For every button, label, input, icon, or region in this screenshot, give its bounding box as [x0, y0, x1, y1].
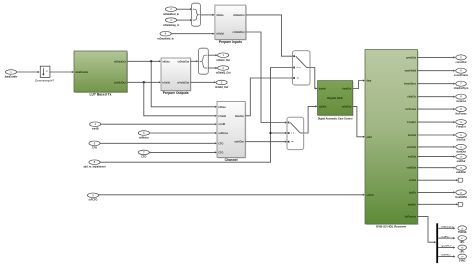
- terminator T11: [458, 178, 463, 182]
- inport CFO: [89, 141, 100, 150]
- svg-text:fecFrame: fecFrame: [455, 113, 467, 116]
- svg-text:snrdB: snrdB: [92, 128, 99, 131]
- svg-text:dataErr: dataErr: [408, 203, 416, 206]
- svg-text:dataEnable: dataEnable: [5, 75, 18, 78]
- svg-text:valid: valid: [366, 136, 372, 139]
- svg-text:CFO: CFO: [92, 147, 97, 150]
- wire switch1 to AGC dataIn: [310, 68, 315, 89]
- svg-text:FreqEst: FreqEst: [407, 121, 416, 124]
- svg-text:txDataI_Out: txDataI_Out: [216, 59, 230, 62]
- wire receiver invalidPkt: [418, 191, 454, 193]
- svg-text:constFrame: constFrame: [454, 74, 469, 77]
- subsystem Prepare Inputs: [215, 5, 247, 44]
- junction control branch: [269, 132, 271, 134]
- wire rxDataReal to mux: [176, 8, 190, 10]
- block complex-to-real-imag demux: [199, 48, 209, 74]
- switch1 data select: [293, 51, 311, 85]
- svg-text:rxDataImag_in: rxDataImag_in: [163, 24, 180, 27]
- svg-text:SYNC: SYNC: [459, 259, 466, 262]
- wire receiver port 13 to terminator: [418, 203, 457, 205]
- svg-text:endOut: endOut: [408, 156, 417, 159]
- switch2 valid select: [287, 117, 304, 150]
- svg-text:UPL: UPL: [460, 241, 465, 244]
- svg-text:pktErr: pktErr: [409, 191, 416, 194]
- wire receiver port 11 to terminator: [418, 179, 457, 181]
- wire receiver modcod: [418, 96, 454, 98]
- terminator T13: [458, 202, 463, 206]
- svg-text:validOut: validOut: [234, 141, 244, 144]
- wire demux to txDataI_Out: [208, 54, 215, 56]
- svg-text:LUT Based Tx: LUT Based Tx: [90, 93, 112, 97]
- subsystem LUT Based Tx: [74, 51, 128, 97]
- wire bus selector SYNC: [438, 256, 453, 258]
- svg-text:CFO: CFO: [141, 156, 146, 159]
- svg-text:rxCFO: rxCFO: [366, 194, 373, 197]
- svg-text:Prepare Outputs: Prepare Outputs: [163, 91, 189, 95]
- wire receiver bitsOut: [418, 134, 454, 136]
- outport FreqEst: [456, 120, 467, 129]
- inport dataEnable: [5, 70, 18, 79]
- wire Downsample to LUT Based Tx: [49, 71, 71, 73]
- svg-text:constOut: constOut: [456, 61, 467, 64]
- wire txDataOut to Prepare Outputs: [127, 60, 159, 62]
- outport validOut: [456, 165, 467, 174]
- svg-text:dataEnable: dataEnable: [75, 71, 88, 74]
- wire control branch to switch2: [271, 132, 285, 134]
- svg-text:txDataQ_Out: txDataQ_Out: [216, 72, 231, 75]
- svg-text:validOut: validOut: [407, 167, 417, 170]
- svg-text:txDataOut: txDataOut: [178, 60, 190, 63]
- svg-text:validIn: validIn: [319, 105, 327, 108]
- wire selNoise to Channel: [149, 132, 215, 134]
- inport rxDataReal_in: [165, 7, 176, 12]
- svg-text:Digital AGC: Digital AGC: [327, 96, 342, 100]
- svg-text:symbOut: symbOut: [406, 56, 417, 59]
- wire rxFCFO to receiver: [98, 194, 363, 196]
- outport nVarEstSym: [454, 81, 469, 90]
- svg-text:nVarEst: nVarEst: [407, 96, 416, 99]
- svg-text:rxDataReal_in: rxDataReal_in: [163, 13, 179, 16]
- wire rxDataValid to Prepare Inputs: [171, 33, 213, 35]
- svg-text:Prepare Inputs: Prepare Inputs: [219, 40, 242, 44]
- svg-text:FreqEst: FreqEst: [456, 126, 465, 129]
- svg-text:modcod: modcod: [456, 100, 466, 103]
- svg-text:fecFrame: fecFrame: [406, 108, 417, 111]
- wire demux to txDataQ_Out: [208, 67, 215, 69]
- outport txValid_Out: [215, 80, 228, 89]
- outport fecFrame: [455, 107, 467, 116]
- wire AGC dataOut to receiver: [353, 81, 363, 89]
- wire txDataOut to demux: [190, 60, 196, 62]
- svg-text:startOut: startOut: [407, 146, 417, 149]
- svg-text:<TSDataOut>: <TSDataOut>: [441, 226, 456, 229]
- wire CFO2 to Channel: [149, 151, 215, 153]
- svg-text:inValid: inValid: [216, 33, 224, 36]
- outport invalidPkt: [455, 190, 467, 199]
- wire mux to Prepare Inputs: [201, 14, 213, 16]
- outport startOut: [456, 144, 467, 153]
- svg-text:Digital Automatic Gain Control: Digital Automatic Gain Control: [318, 117, 353, 120]
- wire AGC validOut to receiver: [353, 106, 363, 136]
- svg-text:selNoise: selNoise: [139, 136, 150, 139]
- svg-text:rxDataOut: rxDataOut: [233, 14, 245, 17]
- outport constFrame: [454, 68, 469, 77]
- wire txValidOut to txValid_Out: [190, 81, 214, 83]
- svg-text:data: data: [366, 80, 372, 83]
- svg-text:UPL: UPL: [460, 250, 465, 253]
- wire bus selector UPL: [438, 237, 453, 239]
- svg-text:Downsample?: Downsample?: [35, 78, 54, 82]
- subsystem Channel: [217, 102, 246, 162]
- subsystem Digital AGC: [318, 81, 354, 121]
- inport snrdB: [90, 122, 101, 131]
- wire CFO to Channel: [100, 142, 215, 144]
- inport add_rx_impairment: [83, 160, 105, 169]
- wire rxValidOut to switch2: [246, 32, 285, 123]
- inport CFO2: [138, 150, 149, 159]
- wire Channel validOut to switch2: [245, 141, 285, 143]
- svg-text:<GSYNC>: <GSYNC>: [441, 254, 452, 257]
- inport rxFCFO: [87, 193, 98, 202]
- wire receiver constFrame: [418, 70, 454, 72]
- svg-text:inData: inData: [162, 60, 170, 63]
- svg-text:startOut: startOut: [456, 150, 466, 153]
- svg-text:bbFrames: bbFrames: [405, 216, 417, 219]
- svg-text:add_rx_impairment: add_rx_impairment: [83, 166, 105, 169]
- wire receiver FreqEst: [418, 121, 454, 123]
- svg-text:txValid: txValid: [162, 81, 170, 84]
- svg-text:bitsOut: bitsOut: [408, 134, 417, 137]
- junction txValidOut branch: [143, 81, 145, 83]
- svg-text:txData: txData: [218, 106, 226, 109]
- wire receiver endOut: [418, 156, 454, 158]
- wire receiver constOut: [418, 56, 454, 58]
- svg-text:<tsUPL>: <tsUPL>: [441, 235, 451, 238]
- wire bbFrames to bus selector: [418, 217, 435, 243]
- svg-text:nVarEstSym: nVarEstSym: [454, 87, 469, 90]
- svg-text:snrdB: snrdB: [218, 123, 225, 126]
- wire Channel dataOut to switch1: [245, 78, 292, 116]
- inport selNoise: [138, 131, 149, 140]
- svg-text:dataOut: dataOut: [342, 88, 351, 91]
- wire receiver fecFrame: [418, 108, 454, 110]
- svg-text:validOut: validOut: [456, 171, 466, 174]
- svg-text:frameSync: frameSync: [404, 83, 417, 86]
- svg-text:CFO: CFO: [218, 142, 223, 145]
- outport modcod: [456, 94, 467, 103]
- svg-text:bitsOut: bitsOut: [457, 139, 466, 142]
- block Downsample: [35, 66, 54, 82]
- inport rxDataValid_in: [160, 31, 171, 36]
- svg-text:dataOut: dataOut: [235, 115, 244, 118]
- svg-text:txDataOut: txDataOut: [114, 60, 126, 63]
- junction txDataOut branch: [150, 60, 152, 62]
- svg-text:CFO: CFO: [218, 151, 223, 154]
- outport constOut: [456, 55, 467, 64]
- outport txDataI_Out: [216, 53, 230, 62]
- wire txDataOut to Channel: [151, 61, 215, 107]
- outport UPL: [458, 236, 467, 244]
- outport UPL: [458, 245, 467, 253]
- svg-text:txValid_Out: txValid_Out: [215, 86, 228, 89]
- svg-text:invalidPkt: invalidPkt: [455, 196, 467, 199]
- svg-text:Channel: Channel: [225, 158, 238, 162]
- svg-text:errOut: errOut: [409, 179, 417, 182]
- svg-text:inData: inData: [216, 14, 224, 17]
- subsystem DVB-S2 HDL Receiver: [365, 50, 419, 229]
- svg-text:symbValid: symbValid: [404, 70, 416, 73]
- outport txDataQ_Out: [216, 66, 231, 75]
- wire rxDataOut to switch1: [246, 15, 292, 56]
- svg-text:rxFCFO: rxFCFO: [89, 199, 98, 202]
- wire txValidOut to Channel: [144, 82, 215, 116]
- outport endOut: [456, 154, 467, 163]
- wire txValidOut to Prepare Outputs: [127, 81, 159, 83]
- svg-text:<gseUPL>: <gseUPL>: [441, 245, 452, 248]
- svg-text:dataIn: dataIn: [319, 88, 327, 91]
- svg-text:txValidOut: txValidOut: [114, 81, 126, 84]
- wire rxDataImag to mux: [176, 19, 190, 21]
- svg-text:selNoise: selNoise: [218, 132, 229, 135]
- svg-text:TS/GSE: TS/GSE: [458, 231, 467, 234]
- svg-text:rxDataValid_in: rxDataValid_in: [157, 37, 174, 40]
- outport bitsOut: [456, 133, 467, 142]
- outport TS/GSE: [458, 226, 467, 234]
- bus selector: [436, 223, 438, 263]
- svg-text:rxValidOut: rxValidOut: [233, 31, 245, 34]
- wire switch2 to AGC validIn: [304, 106, 316, 133]
- svg-text:endOut: endOut: [457, 160, 466, 163]
- subsystem Prepare Outputs: [161, 58, 191, 95]
- wire receiver validOut: [418, 167, 454, 169]
- wire dataEnable to Downsample: [16, 71, 37, 73]
- inport rxDataImag_in: [165, 18, 176, 23]
- wire add_rx_impairment to switch1 control: [100, 68, 292, 163]
- wire bus selector UPL: [438, 247, 453, 249]
- svg-text:txValidOut: txValidOut: [177, 81, 189, 84]
- outport SYNC: [458, 254, 467, 262]
- block real-imag-to-complex mux: [192, 3, 201, 26]
- wire receiver startOut: [418, 146, 454, 148]
- svg-text:txValid: txValid: [218, 115, 226, 118]
- svg-text:validOut: validOut: [342, 105, 352, 108]
- wire bus selector TS/GSE: [438, 227, 453, 229]
- svg-text:DVB-S2 HDL Receiver: DVB-S2 HDL Receiver: [376, 225, 407, 229]
- wire receiver nVarEstSym: [418, 83, 454, 85]
- wire snrdB to Channel: [101, 123, 215, 125]
